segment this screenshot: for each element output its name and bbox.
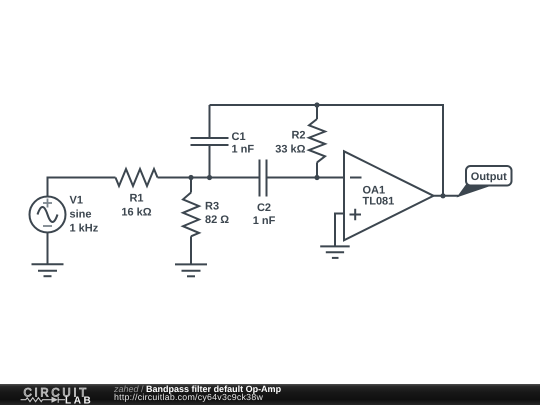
label R2 33 kOhm [275, 130, 305, 156]
label C2 1 nF [253, 202, 276, 227]
node junction output [440, 193, 445, 198]
ground (R3) [175, 264, 207, 276]
wire output [434, 195, 460, 197]
logo squiggle wire [21, 397, 66, 403]
node junction R2 top [314, 102, 319, 107]
label C1 1 nF [232, 131, 255, 156]
svg-text:R2: R2 [291, 130, 305, 142]
label V1 sine 1 kHz [70, 195, 99, 235]
node junction C1 [207, 175, 212, 180]
resistor R1 [116, 169, 158, 186]
ground (op-amp) [320, 246, 350, 258]
label R1 16 kOhm [121, 193, 151, 219]
svg-text:C1: C1 [232, 131, 246, 143]
svg-text:R3: R3 [205, 200, 219, 212]
svg-text:16 kΩ: 16 kΩ [121, 206, 151, 218]
label OA1 TL081 [363, 185, 395, 208]
wire V1 top to R1 [48, 178, 116, 197]
capacitor C1 [191, 105, 229, 178]
footer bar [0, 384, 540, 405]
footer title text [114, 384, 281, 394]
svg-text:TL081: TL081 [363, 196, 395, 208]
output flag pointer [457, 183, 492, 198]
svg-text:Output: Output [471, 171, 507, 183]
svg-text:82 Ω: 82 Ω [205, 214, 229, 226]
wire op-amp plus input to ground [335, 214, 344, 246]
op-amp OA1 [344, 151, 434, 240]
output flag Output [466, 166, 512, 186]
svg-text:1 nF: 1 nF [232, 144, 255, 156]
ground (V1) [32, 264, 64, 276]
svg-text:LAB: LAB [65, 395, 93, 405]
node junction R3 [188, 175, 193, 180]
node junction R2 bottom [314, 175, 319, 180]
wire V1 bottom lead [47, 232, 49, 264]
CircuitLab logo [0, 384, 100, 405]
wire R1 to C2 [158, 177, 260, 179]
wire C2 to op-amp minus input [267, 177, 345, 179]
wire top feedback [210, 105, 444, 196]
resistor R2 [309, 105, 325, 178]
svg-text:R1: R1 [129, 193, 143, 205]
footer url text [114, 392, 263, 402]
svg-text:33 kΩ: 33 kΩ [275, 143, 305, 155]
label R3 82 Ohm [205, 200, 229, 226]
resistor R3 [183, 178, 199, 264]
svg-text:1 kHz: 1 kHz [70, 223, 99, 235]
svg-text:sine: sine [70, 209, 92, 221]
capacitor C2 [260, 160, 267, 197]
svg-text:V1: V1 [70, 195, 83, 207]
svg-text:C2: C2 [257, 202, 271, 214]
svg-text:1 nF: 1 nF [253, 215, 276, 227]
voltage source V1 [30, 197, 66, 233]
